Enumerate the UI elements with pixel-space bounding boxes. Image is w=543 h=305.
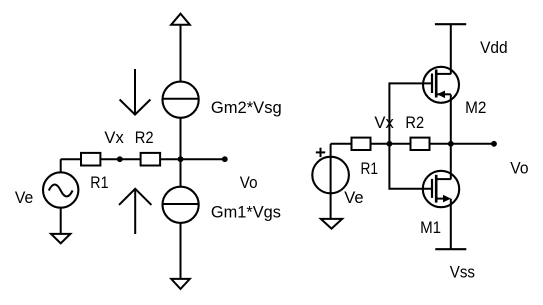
svg-text:R2: R2 — [135, 129, 154, 147]
node: output terminal dot right — [491, 141, 497, 147]
transistor M1 (NMOS) — [423, 171, 459, 207]
ground (bottom of left circuit) — [171, 279, 190, 289]
wire: Vdd to M2 source — [450, 24, 452, 74]
source Ve (AC) left — [43, 172, 78, 207]
current source Gm2*Vsg — [163, 82, 199, 118]
svg-text:M1: M1 — [420, 219, 441, 237]
wire: Ve top stub up to rail — [60, 159, 62, 172]
plus sign of Ve — [316, 151, 325, 153]
wire: M1 source to Vss — [450, 199, 452, 250]
wire: M2 drain to junction — [450, 95, 452, 144]
svg-text:Vo: Vo — [240, 174, 258, 192]
power rail Vss — [435, 248, 466, 250]
arrow (current direction, down) — [134, 69, 136, 114]
svg-text:Vx: Vx — [374, 114, 393, 132]
ground under Ve right — [321, 219, 342, 229]
wire: top vertical to Gm2 — [180, 25, 182, 82]
svg-text:Vdd: Vdd — [480, 39, 508, 57]
wire: main horizontal rail right circuit — [331, 143, 494, 145]
resistor R1 left — [81, 153, 100, 166]
wire: junction to M1 drain — [450, 144, 452, 180]
rail arrow (top, up) — [171, 14, 190, 25]
resistor R2 right — [411, 138, 430, 150]
wire: main horizontal rail left circuit — [61, 158, 225, 160]
wire: Ve bottom stub — [60, 208, 62, 234]
svg-text:Vx: Vx — [104, 129, 123, 147]
svg-text:Gm1*Vgs: Gm1*Vgs — [211, 203, 281, 221]
svg-text:Gm2*Vsg: Gm2*Vsg — [211, 99, 282, 117]
svg-text:R1: R1 — [90, 174, 108, 192]
wire: gate riser from Vx — [389, 83, 432, 188]
wire: Ve vertical through source — [330, 144, 332, 219]
svg-text:Ve: Ve — [15, 189, 33, 207]
svg-text:R1: R1 — [361, 160, 379, 178]
current source Gm1*Vgs — [163, 187, 199, 223]
source Ve right — [312, 157, 349, 194]
resistor R1 right — [352, 138, 371, 150]
node Vx right (dot) — [387, 141, 393, 147]
node: output terminal dot left — [222, 156, 228, 162]
power rail Vdd — [435, 23, 466, 25]
svg-text:Vo: Vo — [510, 159, 528, 177]
node Vx left (dot) — [117, 156, 123, 162]
svg-text:R2: R2 — [405, 114, 424, 132]
arrow (current direction, up) — [134, 190, 136, 234]
wire: Gm2 to junction to Gm1 — [180, 118, 182, 187]
svg-text:Ve: Ve — [344, 189, 363, 207]
svg-text:Vss: Vss — [450, 264, 475, 282]
ground under Ve left — [51, 234, 70, 244]
node: junction dot under M2 drain — [448, 141, 454, 147]
svg-text:M2: M2 — [465, 99, 486, 117]
transistor M2 (PMOS) — [423, 67, 459, 103]
wire: Gm1 to bottom ground — [180, 223, 182, 279]
node: junction dot on main vertical — [178, 156, 184, 162]
resistor R2 left — [141, 153, 161, 166]
